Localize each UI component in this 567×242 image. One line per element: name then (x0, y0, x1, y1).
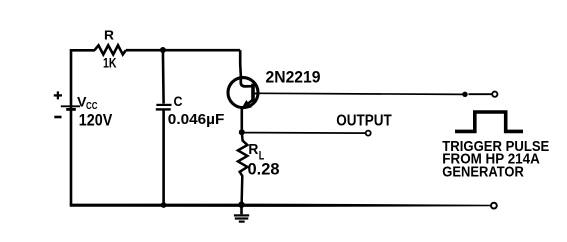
terminal trigger input (open circle) (492, 92, 497, 97)
label RL (248, 141, 264, 163)
node junction top of capacitor branch (160, 47, 166, 53)
svg-text:CC: CC (86, 100, 98, 112)
wire emitter lead down to output node (241, 108, 244, 133)
wire collector lead down to transistor (239, 50, 242, 78)
svg-text:1K: 1K (103, 56, 117, 71)
node connector dot on base wire (462, 92, 467, 97)
svg-text:OUTPUT: OUTPUT (336, 113, 392, 130)
wire left rail battery to bottom rail (70, 106, 73, 205)
wire capacitor branch upper (162, 50, 165, 104)
node junction capacitor to bottom rail (161, 202, 167, 208)
label minus sign (54, 116, 61, 119)
label plus sign (54, 91, 62, 99)
svg-text:R: R (248, 141, 258, 158)
svg-text:GENERATOR: GENERATOR (442, 163, 524, 180)
resistor R (95, 45, 126, 54)
resistor RL (238, 132, 248, 205)
wire top rail from resistor to collector corner (126, 49, 240, 52)
svg-text:C: C (174, 94, 183, 109)
node junction emitter / output / RL (239, 129, 245, 135)
wire top rail from battery to resistor R (71, 50, 95, 107)
svg-text:2N2219: 2N2219 (266, 68, 321, 87)
svg-text:R: R (104, 27, 115, 42)
transistor Q1 2N2219 (228, 77, 259, 108)
capacitor C (156, 105, 172, 110)
wire trigger terminal stub (469, 93, 492, 95)
wire capacitor branch lower (162, 111, 165, 206)
pulse waveform symbol (455, 112, 523, 131)
terminal bottom right (open circle) (491, 203, 497, 209)
wire output lead (242, 132, 366, 135)
node junction RL to bottom rail / ground (238, 202, 244, 208)
label Vcc (77, 93, 98, 112)
svg-text:120V: 120V (79, 112, 113, 130)
svg-text:0.28: 0.28 (248, 160, 280, 178)
wire bottom rail (tapering) (70, 204, 490, 207)
battery Vcc (61, 106, 80, 109)
wire base lead to trigger terminal (258, 93, 463, 94)
ground (234, 205, 249, 222)
svg-text:0.046µF: 0.046µF (168, 112, 225, 128)
terminal output (open circle) (366, 131, 371, 136)
